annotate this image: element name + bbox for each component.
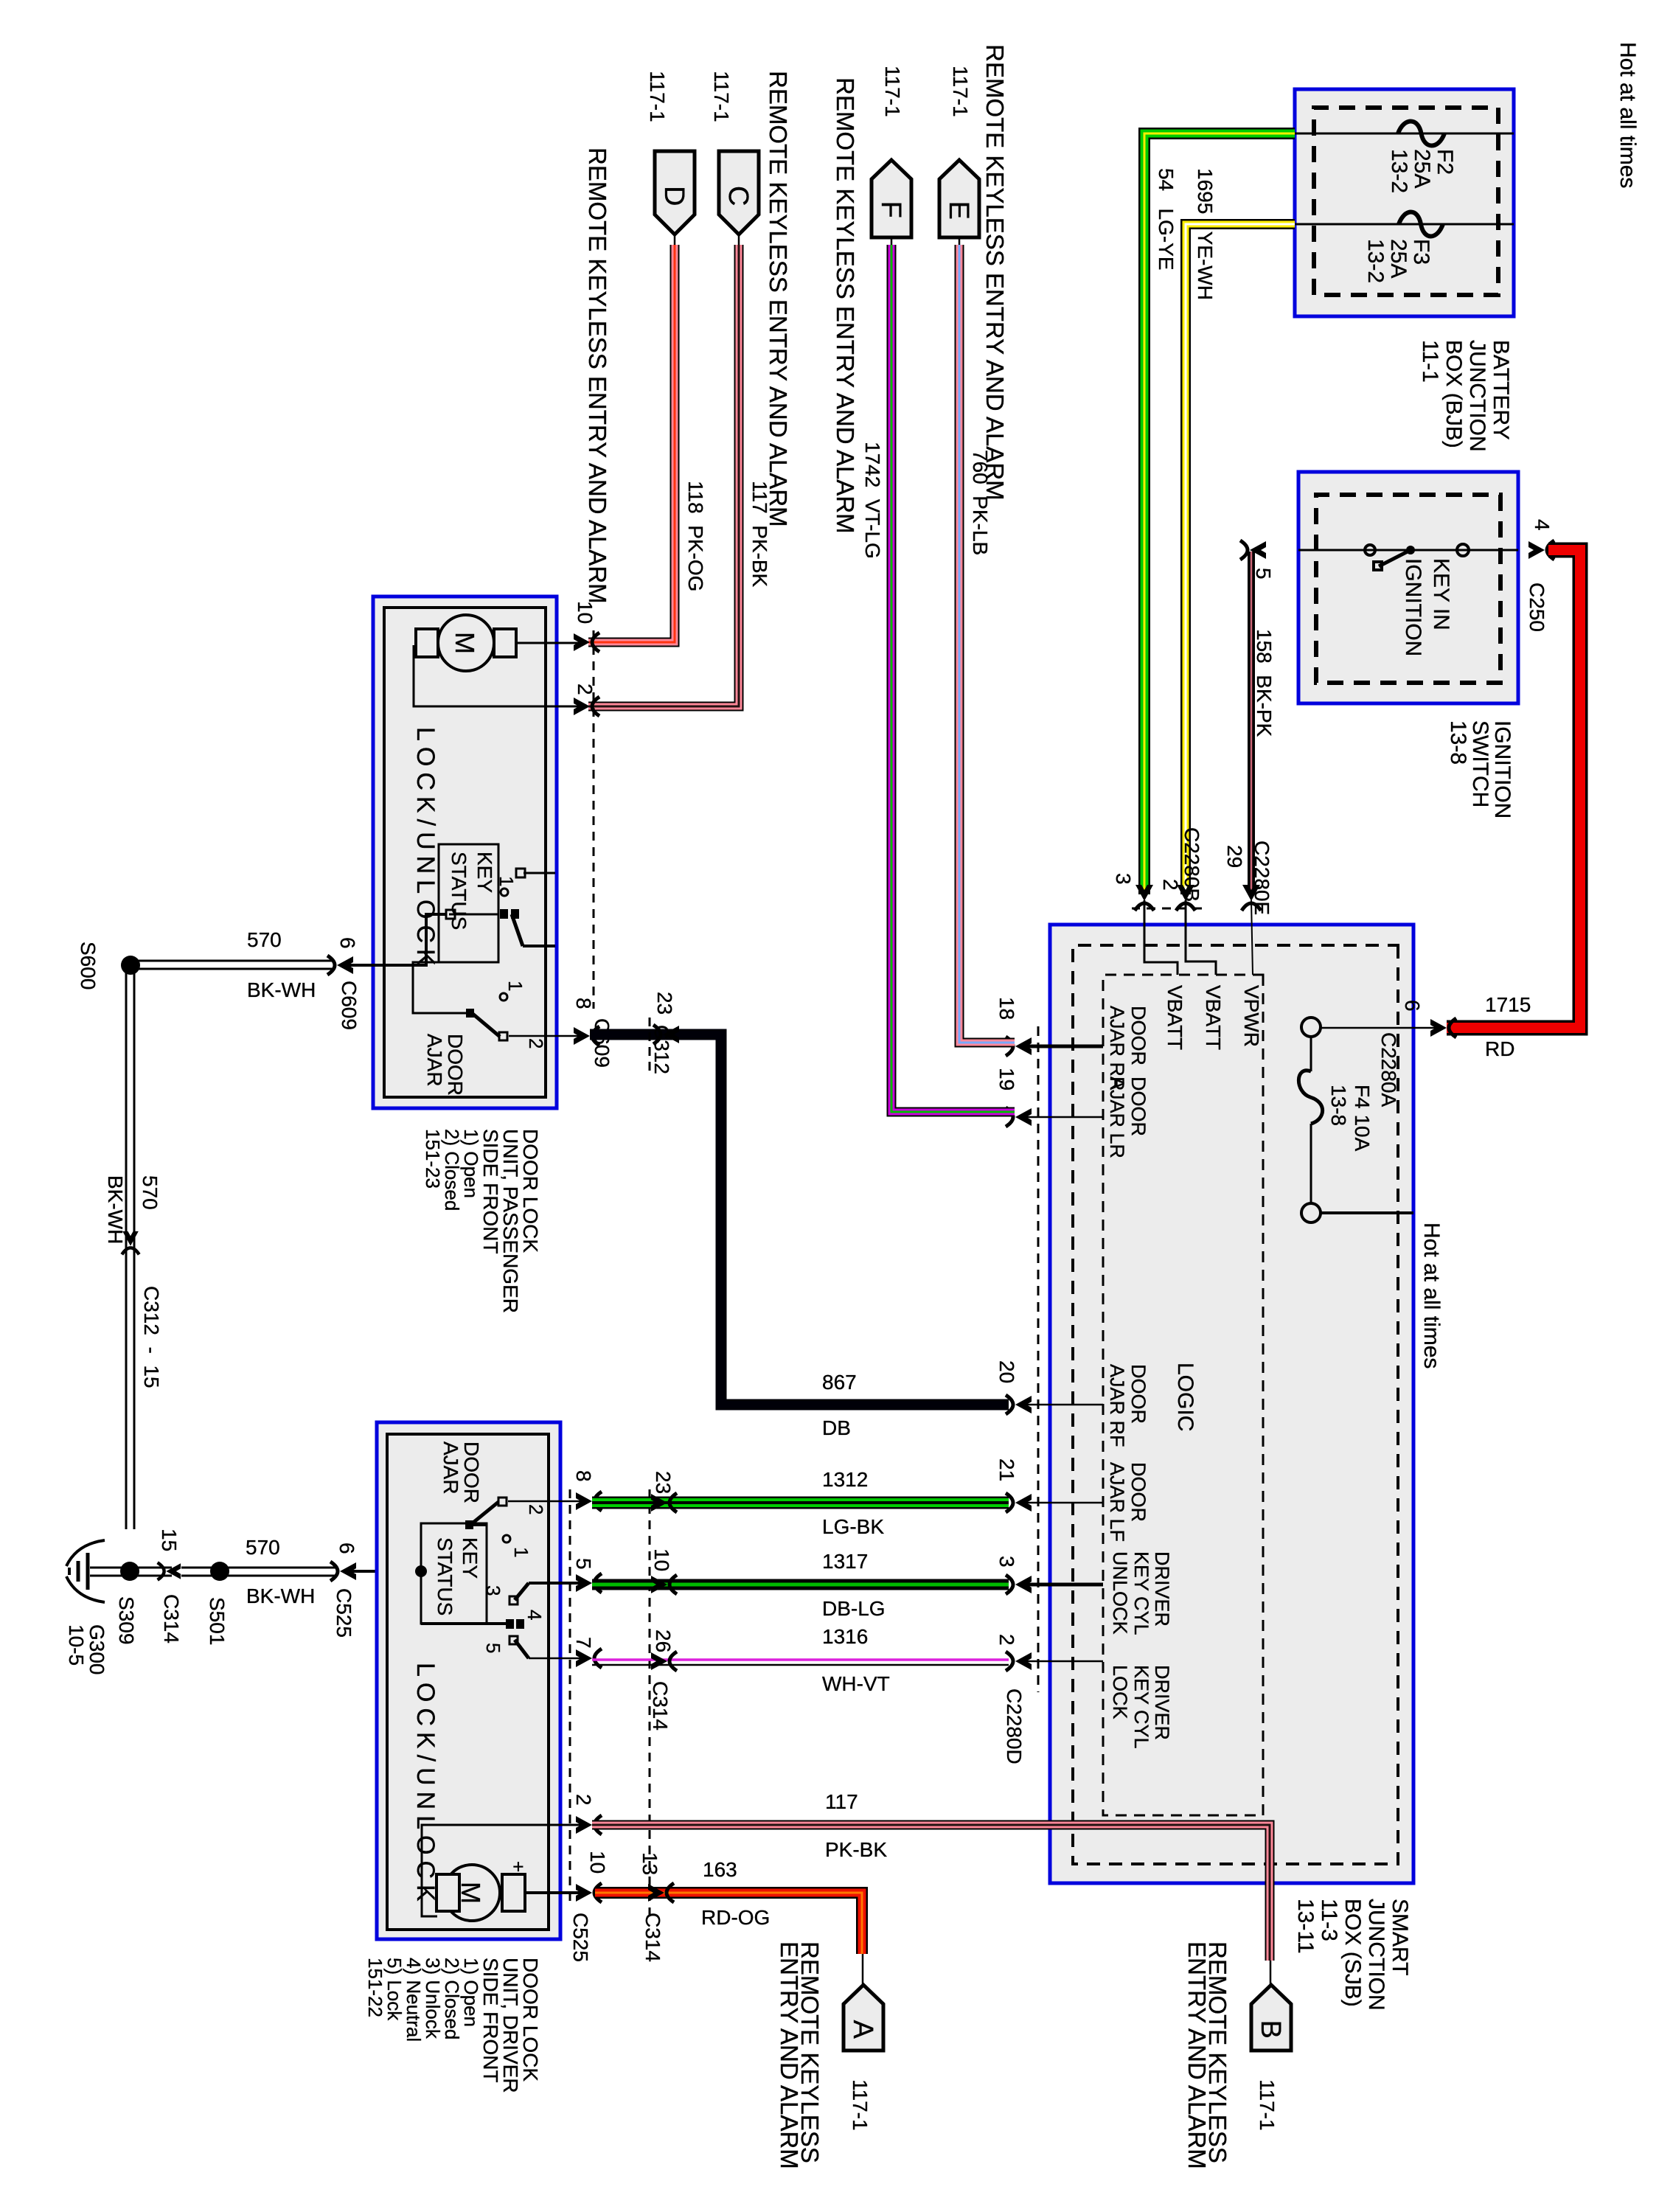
svg-text:10: 10: [650, 1548, 673, 1571]
svg-text:DOOR: DOOR: [1127, 1462, 1150, 1522]
SJB pin 2 arrow: [1006, 1652, 1032, 1671]
wire 1742 VT-LG colored: [891, 245, 1015, 1112]
wire 570 BK-WH long run: [133, 972, 136, 1529]
svg-text:163: 163: [703, 1858, 737, 1881]
svg-text:C609: C609: [591, 1018, 613, 1068]
svg-text:DOOR: DOOR: [1127, 1006, 1150, 1065]
motor M (driver): [444, 1865, 500, 1921]
motor brackets (driver): [502, 1874, 525, 1911]
svg-text:570: 570: [247, 928, 282, 951]
key status contact 1 circle (passenger): [501, 888, 508, 896]
wire 570 BK-WH to S600: [136, 960, 333, 962]
connector C312-15 arrow: [122, 1231, 139, 1255]
svg-text:6: 6: [335, 1543, 358, 1554]
ignition switch blade tip square: [1374, 562, 1382, 570]
svg-text:D: D: [658, 186, 689, 206]
svg-text:REMOTE KEYLESS ENTRY AND ALARM: REMOTE KEYLESS ENTRY AND ALARM: [765, 71, 792, 527]
svg-text:A: A: [847, 2020, 878, 2039]
wire 1317 DB-LG: [592, 1579, 1009, 1590]
connector C314 arrow (ground chain): [158, 1562, 181, 1579]
pin 10 arrow (driver): [576, 1883, 602, 1902]
wire 760 PK-LB: [959, 237, 961, 246]
SJB pin 18 arrow: [1006, 1037, 1032, 1056]
svg-text:AJAR RF: AJAR RF: [1106, 1364, 1128, 1447]
connector A: [844, 1985, 883, 2051]
svg-text:AJAR LR: AJAR LR: [1106, 1077, 1128, 1158]
svg-text:11-3: 11-3: [1317, 1899, 1341, 1941]
wire 117 PK-BK: [738, 234, 740, 246]
wire 158 BK-PK: [1248, 552, 1255, 894]
ignition switch inner dashed box: [1316, 495, 1500, 683]
fuse F2: [1398, 133, 1514, 135]
svg-text:AJAR: AJAR: [439, 1441, 462, 1495]
svg-text:DRIVER: DRIVER: [1151, 1665, 1173, 1740]
connector F: [872, 160, 911, 237]
motor wire to pin 2 (driver): [422, 1825, 590, 1916]
svg-text:BK-WH: BK-WH: [246, 1585, 315, 1607]
ignition switch line: [1298, 549, 1518, 552]
pin 7 arrow (driver): [576, 1649, 602, 1668]
door ajar blade (driver): [470, 1502, 498, 1525]
door ajar pivot (passenger): [466, 1009, 474, 1018]
wire C314 to S501: [181, 1567, 220, 1569]
door ajar contact 1 circle (driver): [503, 1535, 510, 1543]
connector C250 pin 4 arrow: [1528, 540, 1554, 560]
svg-text:2: 2: [995, 1634, 1018, 1646]
svg-text:11-1: 11-1: [1418, 340, 1442, 383]
svg-text:7: 7: [572, 1637, 595, 1649]
svg-text:Hot at all times: Hot at all times: [1615, 42, 1640, 188]
motor M (passenger): [438, 615, 494, 671]
pin 6 lead to F4: [1321, 1027, 1443, 1029]
svg-text:13-8: 13-8: [1327, 1085, 1350, 1126]
svg-text:C2280D: C2280D: [1003, 1688, 1026, 1764]
wire B lead: [1270, 1961, 1272, 1985]
SJB pin 2 lead: [1023, 1660, 1103, 1663]
svg-text:LOCK/UNLOCK: LOCK/UNLOCK: [411, 1663, 439, 1907]
ignition switch contact upper: [1457, 544, 1469, 556]
svg-text:Hot at all times: Hot at all times: [1419, 1222, 1444, 1368]
pin 5 arrow (driver): [576, 1573, 602, 1593]
SJB LOGIC dashed box: [1103, 975, 1263, 1815]
svg-text:UNLOCK: UNLOCK: [1109, 1551, 1131, 1635]
svg-text:20: 20: [995, 1360, 1018, 1383]
connector C312 arrow (867): [653, 1025, 679, 1044]
connector E: [939, 160, 979, 237]
wire 760 PK-LB colored: [959, 245, 1015, 1043]
svg-text:117-1: 117-1: [849, 2079, 872, 2131]
svg-text:RD: RD: [1485, 1037, 1514, 1060]
svg-text:3: 3: [995, 1556, 1018, 1568]
SJB pin 19 arrow: [1006, 1107, 1032, 1127]
svg-text:ENTRY AND ALARM: ENTRY AND ALARM: [1183, 1941, 1211, 2169]
wire 1312 LG-BK: [592, 1497, 1009, 1509]
svg-text:25A: 25A: [1386, 239, 1411, 278]
ignition switch blade: [1379, 550, 1411, 566]
svg-text:DOOR: DOOR: [444, 1034, 467, 1096]
pin 10 arrow (passenger): [574, 633, 599, 652]
key status pivot (passenger): [511, 909, 519, 919]
svg-text:3: 3: [482, 1585, 504, 1596]
key status box (driver): [421, 1523, 487, 1624]
svg-text:1695 YE-WH: 1695 YE-WH: [1194, 168, 1217, 300]
connector C314 arrow 1312: [651, 1493, 677, 1512]
svg-text:10-5: 10-5: [65, 1624, 88, 1666]
svg-text:BK-WH: BK-WH: [247, 978, 316, 1001]
door ajar common L (driver): [468, 1523, 487, 1526]
svg-text:M: M: [450, 632, 480, 654]
svg-text:13-2: 13-2: [1363, 239, 1388, 283]
pin 6 arrow (driver C525): [330, 1562, 356, 1581]
svg-text:PK-BK: PK-BK: [825, 1838, 887, 1861]
svg-text:F: F: [875, 201, 906, 218]
wire to pin 7 (driver): [529, 1658, 584, 1660]
pin 3 VBATT lead-in: [1144, 900, 1178, 975]
svg-text:REMOTE KEYLESS ENTRY AND ALARM: REMOTE KEYLESS ENTRY AND ALARM: [981, 44, 1009, 501]
svg-text:117-1: 117-1: [646, 71, 669, 122]
key status to pin 6 line (passenger): [345, 914, 446, 965]
svg-text:BK-WH: BK-WH: [104, 1175, 127, 1244]
motor wire to pin 10 (driver): [524, 1891, 590, 1894]
wire A lead: [862, 1954, 864, 1985]
svg-text:3: 3: [1112, 873, 1135, 885]
svg-text:C609: C609: [338, 981, 361, 1030]
svg-text:6: 6: [1401, 1000, 1424, 1012]
svg-text:117-1: 117-1: [1256, 2079, 1279, 2131]
svg-text:KEY IN: KEY IN: [1429, 558, 1453, 630]
pin 2 arrow (C2280B): [1176, 885, 1195, 911]
svg-text:13-11: 13-11: [1293, 1899, 1318, 1954]
ignition switch box: [1298, 472, 1518, 703]
smart junction box (SJB) outline: [1050, 925, 1413, 1883]
svg-text:2: 2: [525, 1504, 547, 1514]
connector C: [719, 151, 759, 234]
svg-text:1312: 1312: [822, 1468, 868, 1491]
svg-text:4: 4: [1531, 519, 1554, 531]
svg-text:151-23: 151-23: [422, 1129, 444, 1189]
pin 6 arrow (passenger C609): [327, 956, 353, 975]
door lock unit passenger inner box: [384, 608, 546, 1097]
svg-text:F2: F2: [1433, 149, 1457, 175]
svg-text:18: 18: [995, 997, 1018, 1020]
svg-text:F4 10A: F4 10A: [1351, 1085, 1374, 1152]
svg-text:REMOTE KEYLESS ENTRY AND ALARM: REMOTE KEYLESS ENTRY AND ALARM: [832, 77, 859, 534]
svg-text:RD-OG: RD-OG: [701, 1906, 770, 1929]
wire 118 PK-OG: [674, 234, 676, 246]
svg-text:DOOR: DOOR: [1127, 1077, 1150, 1136]
connector B: [1251, 1985, 1291, 2051]
wire 117 PK-BK colored: [588, 245, 739, 706]
svg-text:8: 8: [572, 998, 595, 1009]
svg-text:DRIVER: DRIVER: [1151, 1551, 1173, 1627]
SJB outer dashed box: [1073, 945, 1398, 1864]
svg-text:IGNITION: IGNITION: [1490, 720, 1514, 818]
svg-text:C: C: [723, 186, 754, 206]
svg-text:118 PK-OG: 118 PK-OG: [684, 481, 707, 591]
fuse F4 circle left: [1301, 1018, 1321, 1037]
connector C525 dashed line: [569, 1489, 571, 1902]
wire 118 PK-OG colored: [588, 245, 675, 642]
ignition switch pivot: [1406, 546, 1415, 554]
svg-text:10: 10: [574, 601, 597, 624]
svg-text:DB: DB: [822, 1416, 851, 1439]
svg-text:DOOR: DOOR: [1127, 1364, 1150, 1424]
svg-text:8: 8: [572, 1470, 595, 1482]
door ajar contact 2 (driver): [498, 1498, 507, 1506]
svg-text:151-22: 151-22: [364, 1958, 386, 2017]
svg-text:13: 13: [639, 1852, 661, 1875]
wire to pin 5 (driver): [529, 1582, 584, 1585]
ignition switch contact lower: [1365, 545, 1375, 555]
fuse F4 circle right: [1301, 1203, 1321, 1222]
svg-text:2: 2: [572, 1794, 595, 1806]
svg-text:C312 - 15: C312 - 15: [140, 1286, 163, 1388]
svg-text:13-8: 13-8: [1446, 720, 1470, 765]
SJB pin 20 lead: [1023, 1404, 1103, 1406]
svg-text:21: 21: [995, 1458, 1018, 1481]
svg-text:C525: C525: [333, 1588, 355, 1638]
motor wire to pin 2 (passenger): [414, 645, 582, 706]
connector C609 dashed line: [593, 630, 595, 1009]
door ajar contact 2 (passenger): [499, 1032, 507, 1040]
BJB inner dashed box: [1314, 108, 1498, 295]
svg-text:25A: 25A: [1410, 149, 1434, 188]
wire S309 to C314: [130, 1567, 172, 1569]
svg-text:570: 570: [139, 1175, 161, 1210]
svg-text:5: 5: [1252, 568, 1275, 580]
svg-text:23: 23: [653, 992, 676, 1015]
SJB pin 20 arrow: [1006, 1395, 1032, 1414]
svg-text:117-1: 117-1: [881, 66, 904, 117]
svg-text:KEY CYL: KEY CYL: [1130, 1551, 1152, 1635]
battery junction box (BJB) outline: [1295, 89, 1514, 316]
svg-text:DOOR: DOOR: [460, 1441, 483, 1503]
connector C312 dashed mark: [649, 1018, 651, 1075]
svg-text:117-1: 117-1: [949, 66, 972, 117]
connector C2280B dashed line: [1132, 908, 1202, 910]
svg-text:867: 867: [822, 1371, 857, 1394]
door ajar pivot (driver): [465, 1520, 473, 1529]
svg-text:AJAR: AJAR: [423, 1034, 446, 1087]
svg-text:54 LG-YE: 54 LG-YE: [1155, 168, 1178, 271]
svg-text:C314: C314: [649, 1681, 672, 1731]
driver pin 6 lead: [347, 1570, 375, 1573]
connector C314 arrow 163: [648, 1883, 674, 1902]
door ajar blade (passenger): [472, 1013, 500, 1037]
pin 29 arrow (C2280E): [1242, 885, 1261, 911]
svg-text:C314: C314: [641, 1913, 664, 1962]
key status contact A (passenger): [516, 869, 525, 877]
svg-text:VBATT: VBATT: [1202, 985, 1225, 1050]
fuse F4 element: [1310, 1037, 1312, 1071]
svg-text:4: 4: [524, 1610, 546, 1620]
svg-text:LOCK: LOCK: [1109, 1665, 1131, 1719]
door lock unit driver box: [377, 1422, 560, 1939]
svg-text:F3: F3: [1409, 239, 1433, 265]
pin 8 arrow (driver): [576, 1492, 602, 1511]
svg-text:IGNITION: IGNITION: [1401, 558, 1425, 656]
svg-text:1: 1: [510, 1547, 532, 1557]
svg-text:5: 5: [482, 1643, 504, 1653]
SJB pin 21 arrow: [1006, 1493, 1032, 1512]
key status throw line B (passenger): [523, 945, 555, 947]
pin 2 VBATT lead-in: [1186, 900, 1216, 975]
svg-text:BOX (BJB): BOX (BJB): [1441, 340, 1466, 448]
door ajar line to pin 8 (passenger): [509, 1035, 582, 1037]
svg-text:S600: S600: [77, 942, 100, 990]
svg-text:LG-BK: LG-BK: [822, 1515, 884, 1538]
svg-text:JUNCTION: JUNCTION: [1364, 1899, 1388, 2011]
key status throw line A (passenger): [524, 872, 555, 874]
svg-text:C312: C312: [650, 1025, 673, 1074]
svg-text:1742 VT-LG: 1742 VT-LG: [861, 442, 884, 559]
svg-text:15: 15: [158, 1528, 181, 1551]
svg-text:AJAR LF: AJAR LF: [1106, 1462, 1128, 1542]
svg-text:13-2: 13-2: [1387, 149, 1411, 193]
SJB pin 3 arrow: [1006, 1575, 1032, 1594]
svg-text:B: B: [1255, 2020, 1286, 2039]
svg-text:VPWR: VPWR: [1240, 985, 1263, 1047]
key status pivot (driver): [506, 1619, 514, 1629]
pin 6 arrow (C2280A): [1430, 1018, 1456, 1037]
svg-text:117: 117: [825, 1790, 858, 1813]
svg-text:G300: G300: [86, 1624, 108, 1675]
svg-text:1316: 1316: [822, 1625, 868, 1648]
wire 54 LG-YE: [1144, 133, 1295, 894]
svg-text:WH-VT: WH-VT: [822, 1672, 890, 1695]
pin 2 arrow (driver): [576, 1815, 602, 1834]
connector C314 dashed line: [649, 1489, 651, 1917]
svg-text:S501: S501: [206, 1597, 229, 1645]
svg-text:KEY: KEY: [473, 852, 496, 893]
motor wire to pin 10 (passenger): [516, 642, 582, 644]
svg-text:DB-LG: DB-LG: [822, 1597, 886, 1620]
pin 29 VPWR lead-in: [1251, 900, 1253, 975]
svg-text:158 BK-PK: 158 BK-PK: [1253, 629, 1276, 737]
svg-text:23: 23: [652, 1471, 675, 1494]
svg-text:2: 2: [525, 1038, 547, 1048]
connector D: [655, 151, 695, 234]
svg-text:ENTRY AND ALARM: ENTRY AND ALARM: [776, 1941, 803, 2169]
ground G300 symbol: [66, 1540, 105, 1566]
svg-text:+: +: [507, 1861, 529, 1872]
connector C314 arrow 1317: [651, 1575, 677, 1594]
door lock unit driver inner box: [387, 1434, 549, 1930]
junction dot driver pin6: [415, 1565, 427, 1577]
splice S501: [210, 1562, 229, 1581]
door ajar line to pin 8 (driver): [508, 1500, 585, 1503]
svg-text:6: 6: [336, 937, 359, 949]
svg-text:SMART: SMART: [1388, 1899, 1412, 1975]
splice S600: [121, 956, 140, 975]
wire 1316 WH-VT: [592, 1658, 1009, 1661]
svg-text:760 PK-LB: 760 PK-LB: [969, 450, 992, 555]
SJB hot feed line: [1321, 1211, 1413, 1214]
key status common line (passenger): [449, 914, 498, 916]
svg-text:1: 1: [504, 981, 526, 991]
SJB pin 19 lead: [1023, 1116, 1103, 1119]
svg-text:1317: 1317: [822, 1550, 868, 1573]
wire 1742 VT-LG: [891, 237, 893, 246]
svg-text:BOX (SJB): BOX (SJB): [1340, 1899, 1365, 2007]
svg-text:VBATT: VBATT: [1164, 985, 1186, 1050]
svg-text:STATUS: STATUS: [434, 1537, 456, 1615]
svg-text:KEY: KEY: [459, 1537, 481, 1579]
SJB pin 18 lead: [1023, 1045, 1103, 1048]
svg-text:LOGIC: LOGIC: [1173, 1363, 1197, 1431]
svg-text:1715: 1715: [1485, 993, 1531, 1016]
svg-text:C250: C250: [1526, 582, 1548, 632]
wire 163 RD-OG: [595, 1893, 862, 1954]
svg-text:E: E: [943, 201, 974, 220]
svg-text:29: 29: [1223, 845, 1246, 868]
SJB pin 21 lead: [1023, 1502, 1103, 1504]
svg-text:JUNCTION: JUNCTION: [1465, 340, 1489, 452]
svg-text:19: 19: [995, 1068, 1018, 1091]
fuse F3: [1399, 223, 1514, 226]
svg-text:SWITCH: SWITCH: [1468, 720, 1492, 807]
connector C2280 dashed line: [1037, 1026, 1040, 1692]
svg-text:S309: S309: [115, 1596, 138, 1644]
key status contact 3 (driver): [509, 1596, 518, 1604]
pin 8 arrow (passenger): [574, 1026, 599, 1046]
svg-text:1: 1: [495, 876, 518, 886]
key status blade (passenger): [512, 914, 523, 946]
svg-text:5: 5: [572, 1558, 595, 1570]
svg-text:117-1: 117-1: [710, 71, 733, 122]
connector C250 pin 5 arrow: [1240, 540, 1266, 560]
svg-text:C2280A: C2280A: [1377, 1032, 1400, 1107]
wire 1695 YE-WH: [1186, 224, 1295, 894]
wire S309 to ground: [90, 1567, 130, 1569]
pin 2 arrow (passenger): [574, 697, 599, 716]
svg-text:2: 2: [1159, 879, 1182, 891]
connector C314 arrow 1316: [651, 1652, 677, 1671]
key status common contact (passenger): [446, 910, 455, 919]
pin 3 arrow (C2280B): [1135, 885, 1154, 911]
svg-text:26: 26: [652, 1630, 675, 1652]
door ajar contact 1 circle (passenger): [500, 993, 507, 1001]
svg-text:C314: C314: [160, 1594, 183, 1644]
splice S309: [120, 1562, 139, 1581]
key status blade 5 (driver): [515, 1640, 529, 1658]
svg-text:C525: C525: [569, 1913, 592, 1962]
key status blade 3 (driver): [515, 1583, 529, 1600]
svg-text:BATTERY: BATTERY: [1489, 340, 1513, 440]
svg-text:REMOTE KEYLESS ENTRY AND ALARM: REMOTE KEYLESS ENTRY AND ALARM: [584, 147, 611, 604]
svg-text:117 PK-BK: 117 PK-BK: [748, 481, 771, 588]
door lock unit passenger box: [373, 597, 557, 1108]
wire 570 BK-WH S501 to driver pin 6: [220, 1567, 336, 1569]
svg-text:570: 570: [246, 1536, 280, 1559]
key status box (passenger): [439, 844, 498, 962]
svg-text:KEY CYL: KEY CYL: [1130, 1665, 1152, 1749]
svg-text:10: 10: [586, 1851, 609, 1874]
wire 1715 RD: [1447, 550, 1580, 1028]
SJB pin 3 lead: [1023, 1583, 1103, 1587]
wire 867 DB: [590, 1034, 1009, 1405]
door ajar switch common (passenger): [413, 962, 470, 1013]
key status contact 5 (driver): [509, 1636, 518, 1644]
wire 117 PK-BK (driver): [592, 1825, 1270, 1961]
